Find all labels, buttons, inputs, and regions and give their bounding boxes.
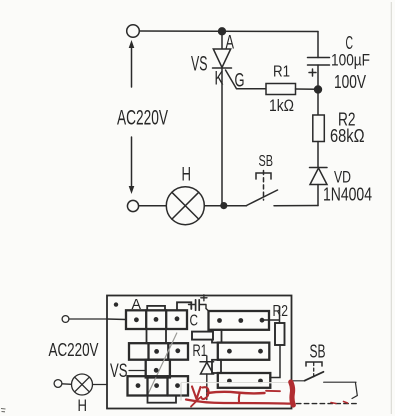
capacitor C pcb symbol	[189, 305, 207, 309]
wire: switch to right	[324, 381, 356, 383]
pad row 2 left	[129, 343, 188, 360]
diode VD: anode lead	[317, 185, 319, 206]
node K junction dot	[220, 202, 227, 209]
red scribble line 2	[186, 400, 294, 404]
PCB board outline	[107, 296, 292, 409]
node A junction dot	[218, 27, 226, 35]
lamp H cross	[172, 192, 199, 219]
pad tab below row4	[148, 396, 177, 403]
wire: gate lead diagonal	[226, 70, 244, 89]
capacitor C: bottom lead	[317, 65, 319, 89]
wire: board to switch	[292, 380, 306, 382]
capacitor C: plates	[308, 57, 330, 59]
red label VD handwriting	[192, 387, 201, 400]
wire: cap to long pad	[206, 309, 209, 312]
wire: board entry to pad row 1	[107, 318, 126, 321]
svg-text:AC220V: AC220V	[49, 339, 99, 360]
svg-text:C: C	[346, 33, 354, 53]
pad long row top right	[209, 311, 270, 330]
wire: R2 bottom down to lower pad row	[270, 345, 280, 378]
capacitor C: plus sign	[309, 69, 316, 76]
red blob at board edge	[291, 382, 294, 405]
red scribble line 1	[208, 392, 265, 394]
wire: bottom bus right segment	[274, 205, 318, 207]
wire: node B to R2	[317, 90, 319, 116]
wire: lamp to node K junction	[204, 205, 246, 207]
resistor R2 pcb body	[275, 323, 285, 345]
terminal: pcb top input	[62, 316, 69, 323]
switch SB: actuator stem dashed	[263, 171, 265, 201]
pad row 1 (three cells)	[126, 310, 187, 329]
connector long pad to R2	[262, 307, 280, 324]
arrow: AC220V up	[131, 44, 133, 87]
terminal: pcb bottom input	[54, 380, 62, 388]
scan artifact: faint right edge line	[390, 2, 392, 414]
svg-text:R1: R1	[193, 342, 208, 360]
wire: thyristor cathode down to bottom bus	[221, 68, 223, 206]
wire: top input to board	[69, 318, 107, 320]
connector row1 right cell up	[177, 302, 191, 310]
thyristor VS: anode lead	[221, 35, 223, 49]
diode VD pcb: cathode bar	[200, 361, 214, 363]
wire: bottom bus from terminal to lamp	[139, 205, 167, 207]
thyristor lead scratch diagonal	[149, 333, 177, 393]
svg-text:VS: VS	[191, 53, 208, 76]
switch SB pcb actuator	[306, 362, 322, 366]
erased area outline (white-out box)	[181, 383, 291, 401]
terminal: AC top-left	[127, 25, 140, 38]
pad middle small	[146, 360, 170, 378]
wire: R2 to VD	[317, 142, 319, 168]
svg-text:AC220V: AC220V	[117, 107, 168, 130]
svg-text:H: H	[182, 165, 192, 186]
red scribbles overlay	[186, 382, 348, 407]
resistor R1	[266, 84, 296, 95]
svg-text:R1: R1	[273, 64, 290, 81]
connector row1-middle to row2-middle	[147, 329, 167, 343]
diode VD pcb: triangle	[201, 362, 214, 374]
switch SB pcb arm	[305, 372, 324, 381]
svg-text:1kΩ: 1kΩ	[269, 96, 294, 115]
arrow: AC220V down	[131, 137, 133, 190]
svg-text:SB: SB	[310, 342, 326, 362]
pad row 4 bottom left	[128, 376, 189, 395]
lamp H circle	[166, 187, 204, 225]
red dash mid	[266, 390, 280, 392]
scan artifact: bottom-left mark	[1, 409, 6, 412]
terminal: AC bottom-left	[127, 200, 138, 211]
diode VD pcb: bottom lead	[206, 374, 208, 400]
lamp H pcb cross	[75, 377, 90, 392]
svg-text:100µF: 100µF	[331, 52, 370, 70]
wire: R1 to node B	[296, 88, 319, 90]
pad row2 right	[218, 343, 269, 360]
connector long pad to row2-right	[212, 330, 222, 343]
wire: terminal to lamp	[62, 383, 72, 386]
wire: top bus from left terminal to capacitor corner	[140, 30, 319, 33]
pad dot A	[114, 302, 118, 306]
red specks on dotted line	[331, 402, 348, 404]
red slash under VD	[191, 398, 200, 407]
pad tab above row1 middle	[147, 306, 165, 311]
capacitor C: top lead	[317, 32, 319, 58]
connector row2-right to lower right row	[212, 360, 221, 373]
svg-text:C: C	[190, 313, 199, 330]
pad row lower right	[218, 373, 270, 388]
red vertical tick	[238, 394, 241, 402]
switch SB: actuator bracket	[256, 173, 271, 179]
svg-text:VS: VS	[110, 361, 128, 382]
switch SB: arm	[247, 190, 278, 206]
resistor R1 pcb body	[192, 332, 213, 340]
svg-text:H: H	[78, 397, 88, 415]
diode VD pcb: top lead	[206, 356, 208, 362]
svg-text:68kΩ: 68kΩ	[330, 126, 365, 146]
wire: bottom dotted return	[289, 403, 358, 405]
diode VD: triangle	[310, 168, 327, 185]
thyristor VS: cathode bar	[213, 67, 232, 69]
svg-text:100V: 100V	[334, 72, 366, 92]
svg-text:1N4004: 1N4004	[323, 185, 372, 205]
svg-text:SB: SB	[259, 153, 274, 170]
wire: right drop with hook	[352, 383, 357, 399]
thyristor VS: triangle	[213, 49, 230, 68]
diode VD: cathode bar	[310, 167, 328, 169]
resistor R2	[313, 115, 325, 142]
wire: gate to R1	[243, 88, 266, 90]
lamp H pcb circle	[72, 374, 93, 395]
wire: lamp to board	[93, 384, 108, 386]
pointer line after VS	[129, 370, 145, 372]
node B junction dot	[314, 85, 322, 93]
